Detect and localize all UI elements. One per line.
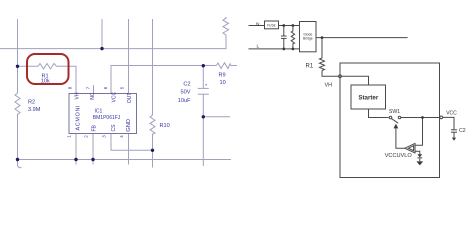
wire: pin2 stub — [92, 134, 94, 165]
svg-text:C2: C2 — [183, 81, 190, 87]
svg-text:10: 10 — [220, 80, 226, 86]
wire: vertical line A top segment — [17, 19, 19, 93]
svg-text:R2: R2 — [28, 99, 35, 105]
capacitor X-cap — [283, 26, 285, 37]
svg-text:Starter: Starter — [358, 95, 379, 102]
node bus-102 — [100, 47, 103, 50]
resistor R10 zigzag — [150, 115, 155, 134]
wire fuse to bridge — [279, 25, 300, 27]
resistor R9 zigzag — [216, 63, 230, 69]
resistor R1 zigzag — [38, 64, 57, 70]
svg-text:5: 5 — [120, 86, 125, 89]
wire: pin4 GND line — [128, 134, 130, 165]
wire comparator plus input — [415, 118, 423, 146]
svg-text:N: N — [256, 22, 260, 28]
svg-text:VH: VH — [75, 92, 81, 99]
svg-text:50V: 50V — [181, 90, 191, 96]
wire: pin5 OUT long line — [128, 19, 130, 94]
left schematic labels — [28, 73, 226, 138]
node CS-R10 — [151, 149, 154, 152]
wire to R1 — [321, 38, 323, 58]
wire: horizontal bus B — [0, 35, 226, 49]
wire L input — [249, 48, 300, 50]
starter block box — [351, 85, 386, 109]
svg-text:VH: VH — [325, 83, 333, 89]
wire: R9 right lead — [231, 65, 237, 67]
varistor ZNR — [291, 26, 294, 49]
junction dot comparator input — [421, 116, 424, 119]
svg-text:6: 6 — [103, 86, 108, 89]
IC IC1 BM1P061FJ box — [69, 94, 137, 134]
resistor R2 zigzag — [15, 93, 20, 116]
wire VCC to C2 — [443, 117, 454, 129]
svg-text:OUT: OUT — [127, 93, 133, 104]
svg-text:VCC: VCC — [446, 110, 457, 116]
junction dots — [16, 47, 205, 161]
zener diode — [417, 154, 422, 157]
svg-text:FB: FB — [91, 124, 97, 131]
svg-text:C2: C2 — [459, 128, 466, 134]
pin VH circle — [339, 75, 342, 78]
IC internal block box — [340, 63, 440, 178]
svg-text:GND: GND — [126, 119, 132, 132]
wire: R1 right lead to pin8 — [57, 66, 77, 93]
capacitor C2 (right) — [451, 129, 457, 131]
svg-text:1: 1 — [67, 135, 72, 138]
svg-text:VCC: VCC — [112, 91, 118, 102]
svg-text:3: 3 — [101, 135, 106, 138]
wire: bottom bus — [18, 159, 232, 161]
wire: pin7 stub — [93, 85, 95, 94]
wire: line A lower segment with hook — [18, 116, 22, 168]
wire starter to SW1 — [369, 109, 389, 118]
svg-text:7: 7 — [86, 86, 91, 89]
svg-text:R1: R1 — [306, 64, 314, 70]
wire R1 to VH pin — [322, 71, 339, 77]
svg-text:BM1P061FJ: BM1P061FJ — [93, 115, 121, 121]
junction dot bridge output — [321, 36, 324, 39]
diode bridge box — [300, 22, 317, 52]
ground C2 arrow — [452, 138, 456, 141]
svg-text:CS: CS — [111, 124, 117, 132]
wire: x=152.5 line lower — [152, 134, 154, 168]
wire comparator minus input — [415, 151, 420, 154]
wire: x=152.5 line upper — [152, 19, 154, 115]
switch SW1 — [389, 116, 392, 119]
svg-text:8: 8 — [68, 86, 73, 89]
ground symbol — [416, 161, 423, 165]
wire: R1 left lead — [18, 65, 39, 67]
svg-text:IC1: IC1 — [95, 109, 103, 115]
svg-text:L: L — [257, 44, 260, 50]
junction dots AC side — [282, 24, 285, 27]
wire: top stub x=102 — [101, 19, 103, 49]
wire SW1 to VCC — [401, 117, 440, 119]
wire bridge output — [316, 37, 408, 39]
wire N input — [249, 25, 265, 27]
wire VH to starter — [341, 76, 368, 85]
svg-text:10k: 10k — [41, 79, 50, 85]
resistor top-right unlabeled — [223, 17, 229, 35]
red highlight box around R1 — [27, 54, 69, 84]
node bus bottom A — [16, 158, 19, 161]
wire: C2 bottom lead down — [202, 94, 204, 166]
resistor R1 (startup) — [320, 58, 325, 71]
wire: y=116.8 stub right — [203, 116, 230, 118]
svg-text:4: 4 — [119, 135, 124, 138]
svg-text:2: 2 — [84, 135, 89, 138]
wire zener to ground — [419, 158, 421, 161]
node C2 top — [202, 64, 205, 67]
svg-text:FUSE: FUSE — [267, 23, 276, 27]
comparator VCCUVLO triangle — [405, 143, 415, 153]
wire: pin1 stub — [75, 134, 77, 165]
svg-text:NC: NC — [90, 92, 96, 100]
fuse F1 box — [265, 21, 279, 29]
svg-text:+: + — [205, 83, 208, 88]
capacitor C2 plates — [198, 87, 209, 89]
node R1-lineA — [16, 65, 19, 68]
svg-text:R9: R9 — [219, 73, 226, 79]
pin VCC circle — [440, 116, 443, 119]
wire: pin6 VCC wire — [111, 66, 216, 94]
svg-text:Bridge: Bridge — [303, 36, 313, 40]
capacitor C2 top lead — [202, 66, 204, 89]
svg-text:ACMONI: ACMONI — [75, 105, 81, 131]
svg-text:VCCUVLO: VCCUVLO — [385, 153, 413, 159]
arrowhead to SW1 — [394, 124, 399, 129]
svg-text:SW1: SW1 — [389, 109, 400, 115]
wire: pin3 CS wire — [111, 134, 153, 151]
node bus pin2 — [91, 158, 94, 161]
comparator output wire and arrow shaft — [396, 128, 405, 148]
svg-text:3.9M: 3.9M — [28, 107, 41, 113]
svg-text:R10: R10 — [160, 123, 170, 129]
svg-text:10uF: 10uF — [178, 98, 191, 104]
node bus pin1 — [74, 158, 77, 161]
node C2 bottom — [202, 115, 205, 118]
